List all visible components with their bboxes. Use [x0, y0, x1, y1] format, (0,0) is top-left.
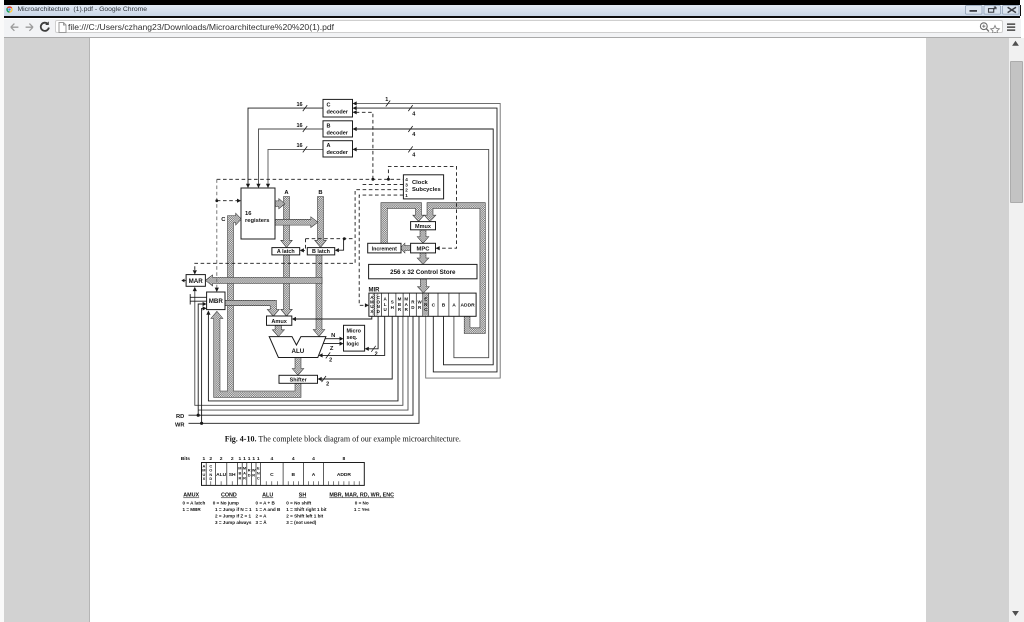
svg-text:Z: Z: [330, 346, 334, 352]
svg-text:W: W: [417, 300, 422, 305]
svg-text:2: 2: [220, 456, 223, 462]
svg-text:4: 4: [271, 456, 274, 462]
svg-text:logic: logic: [347, 341, 360, 347]
svg-text:C: C: [327, 103, 331, 109]
svg-text:1: 1: [405, 193, 408, 198]
svg-text:A: A: [327, 143, 331, 149]
svg-text:C: C: [270, 472, 274, 478]
svg-text:ADDR: ADDR: [337, 472, 352, 478]
svg-text:decoder: decoder: [327, 110, 349, 116]
svg-text:3 = Jump always: 3 = Jump always: [215, 520, 252, 525]
svg-text:MIR: MIR: [369, 288, 381, 294]
svg-text:Increment: Increment: [372, 246, 398, 252]
svg-text:16: 16: [296, 143, 302, 149]
svg-text:1: 1: [239, 456, 242, 462]
svg-text:1 = Shift right 1 bit: 1 = Shift right 1 bit: [286, 507, 327, 512]
svg-text:2: 2: [329, 357, 332, 363]
svg-text:16: 16: [245, 211, 252, 217]
svg-text:1: 1: [252, 456, 255, 462]
svg-text:ADDR: ADDR: [461, 303, 476, 309]
svg-text:R: R: [243, 476, 246, 481]
svg-text:0 = No shift: 0 = No shift: [286, 500, 311, 505]
svg-text:256 x 32 Control Store: 256 x 32 Control Store: [390, 269, 456, 276]
svg-text:decoder: decoder: [327, 130, 349, 136]
svg-text:B: B: [442, 303, 446, 309]
svg-text:2: 2: [375, 351, 378, 357]
svg-text:X: X: [370, 309, 373, 314]
svg-text:B latch: B latch: [312, 249, 330, 255]
svg-text:1 = A and B: 1 = A and B: [256, 507, 281, 512]
svg-text:3 = (not used): 3 = (not used): [286, 520, 316, 525]
svg-text:2 = Jump if Z = 1: 2 = Jump if Z = 1: [215, 513, 251, 518]
svg-text:1 = MBR: 1 = MBR: [183, 507, 202, 512]
svg-text:RD: RD: [176, 414, 184, 420]
svg-text:4: 4: [412, 132, 416, 138]
svg-text:R: R: [252, 473, 255, 478]
svg-text:ALU: ALU: [216, 472, 227, 478]
svg-text:AMUX: AMUX: [183, 493, 199, 499]
svg-text:C: C: [432, 303, 436, 309]
svg-text:16: 16: [296, 102, 302, 108]
svg-text:MBR: MBR: [209, 298, 224, 305]
svg-text:1: 1: [257, 456, 260, 462]
svg-text:MPC: MPC: [417, 247, 431, 253]
svg-text:SH: SH: [299, 493, 307, 499]
svg-text:1: 1: [248, 456, 251, 462]
svg-text:B: B: [318, 190, 322, 196]
svg-text:A: A: [312, 472, 316, 478]
svg-text:3: 3: [405, 182, 408, 187]
svg-text:0 = No: 0 = No: [355, 500, 369, 505]
svg-text:2 = Shift left 1 bit: 2 = Shift left 1 bit: [286, 513, 323, 518]
svg-text:S: S: [391, 300, 394, 305]
svg-text:Shifter: Shifter: [290, 377, 308, 383]
svg-text:A: A: [452, 303, 456, 309]
svg-text:U: U: [383, 307, 386, 312]
svg-text:4: 4: [292, 456, 295, 462]
svg-text:A: A: [284, 190, 289, 196]
svg-text:Clock: Clock: [412, 180, 429, 186]
svg-text:B: B: [327, 123, 331, 129]
svg-text:2: 2: [326, 381, 329, 387]
svg-text:Bits: Bits: [181, 456, 191, 462]
svg-text:B: B: [292, 472, 296, 478]
svg-text:SH: SH: [229, 472, 236, 478]
svg-text:Micro: Micro: [347, 328, 362, 334]
svg-text:A latch: A latch: [277, 249, 295, 255]
svg-text:D: D: [248, 473, 251, 478]
svg-text:Amux: Amux: [271, 319, 287, 325]
svg-text:N: N: [424, 302, 427, 307]
svg-text:registers: registers: [245, 218, 270, 224]
svg-text:Subcycles: Subcycles: [412, 187, 441, 193]
svg-text:2: 2: [405, 188, 408, 193]
svg-text:MAR: MAR: [189, 278, 204, 285]
svg-text:seq.: seq.: [347, 335, 358, 341]
svg-text:0 = A + B: 0 = A + B: [256, 500, 276, 505]
svg-text:4: 4: [312, 456, 315, 462]
svg-text:decoder: decoder: [327, 150, 349, 156]
svg-text:0 = No jump: 0 = No jump: [213, 500, 239, 505]
svg-text:C: C: [257, 476, 260, 481]
svg-text:1: 1: [385, 97, 388, 103]
svg-text:0 = A latch: 0 = A latch: [183, 500, 206, 505]
svg-text:H: H: [391, 305, 394, 310]
svg-text:3 = Ā: 3 = Ā: [256, 519, 268, 525]
svg-text:1: 1: [203, 456, 206, 462]
svg-text:1 = Jump if N = 1: 1 = Jump if N = 1: [215, 507, 252, 512]
svg-text:M: M: [398, 297, 402, 302]
svg-text:4: 4: [412, 153, 416, 159]
svg-text:Mmux: Mmux: [415, 224, 432, 230]
svg-text:16: 16: [296, 123, 302, 129]
svg-text:Fig. 4-10. The complete block: Fig. 4-10. The complete block diagram of…: [225, 435, 461, 444]
svg-text:1 = Yes: 1 = Yes: [354, 507, 370, 512]
svg-text:D: D: [209, 476, 212, 481]
svg-text:WR: WR: [175, 422, 184, 428]
svg-text:N: N: [331, 333, 335, 339]
svg-text:8: 8: [343, 456, 346, 462]
svg-text:2: 2: [231, 456, 234, 462]
svg-text:L: L: [384, 302, 387, 307]
svg-text:2: 2: [209, 456, 212, 462]
svg-text:X: X: [203, 476, 206, 481]
svg-text:E: E: [424, 297, 427, 302]
svg-text:1: 1: [243, 456, 246, 462]
svg-text:MBR, MAR, RD, WR, ENC: MBR, MAR, RD, WR, ENC: [329, 493, 394, 499]
svg-text:ALU: ALU: [262, 493, 273, 499]
svg-text:R: R: [238, 476, 241, 481]
svg-text:4: 4: [412, 111, 416, 117]
svg-text:COND: COND: [221, 493, 237, 499]
svg-text:M: M: [404, 297, 408, 302]
svg-text:2 = A: 2 = A: [256, 513, 268, 518]
svg-text:C: C: [221, 217, 226, 223]
svg-text:ALU: ALU: [292, 348, 305, 355]
